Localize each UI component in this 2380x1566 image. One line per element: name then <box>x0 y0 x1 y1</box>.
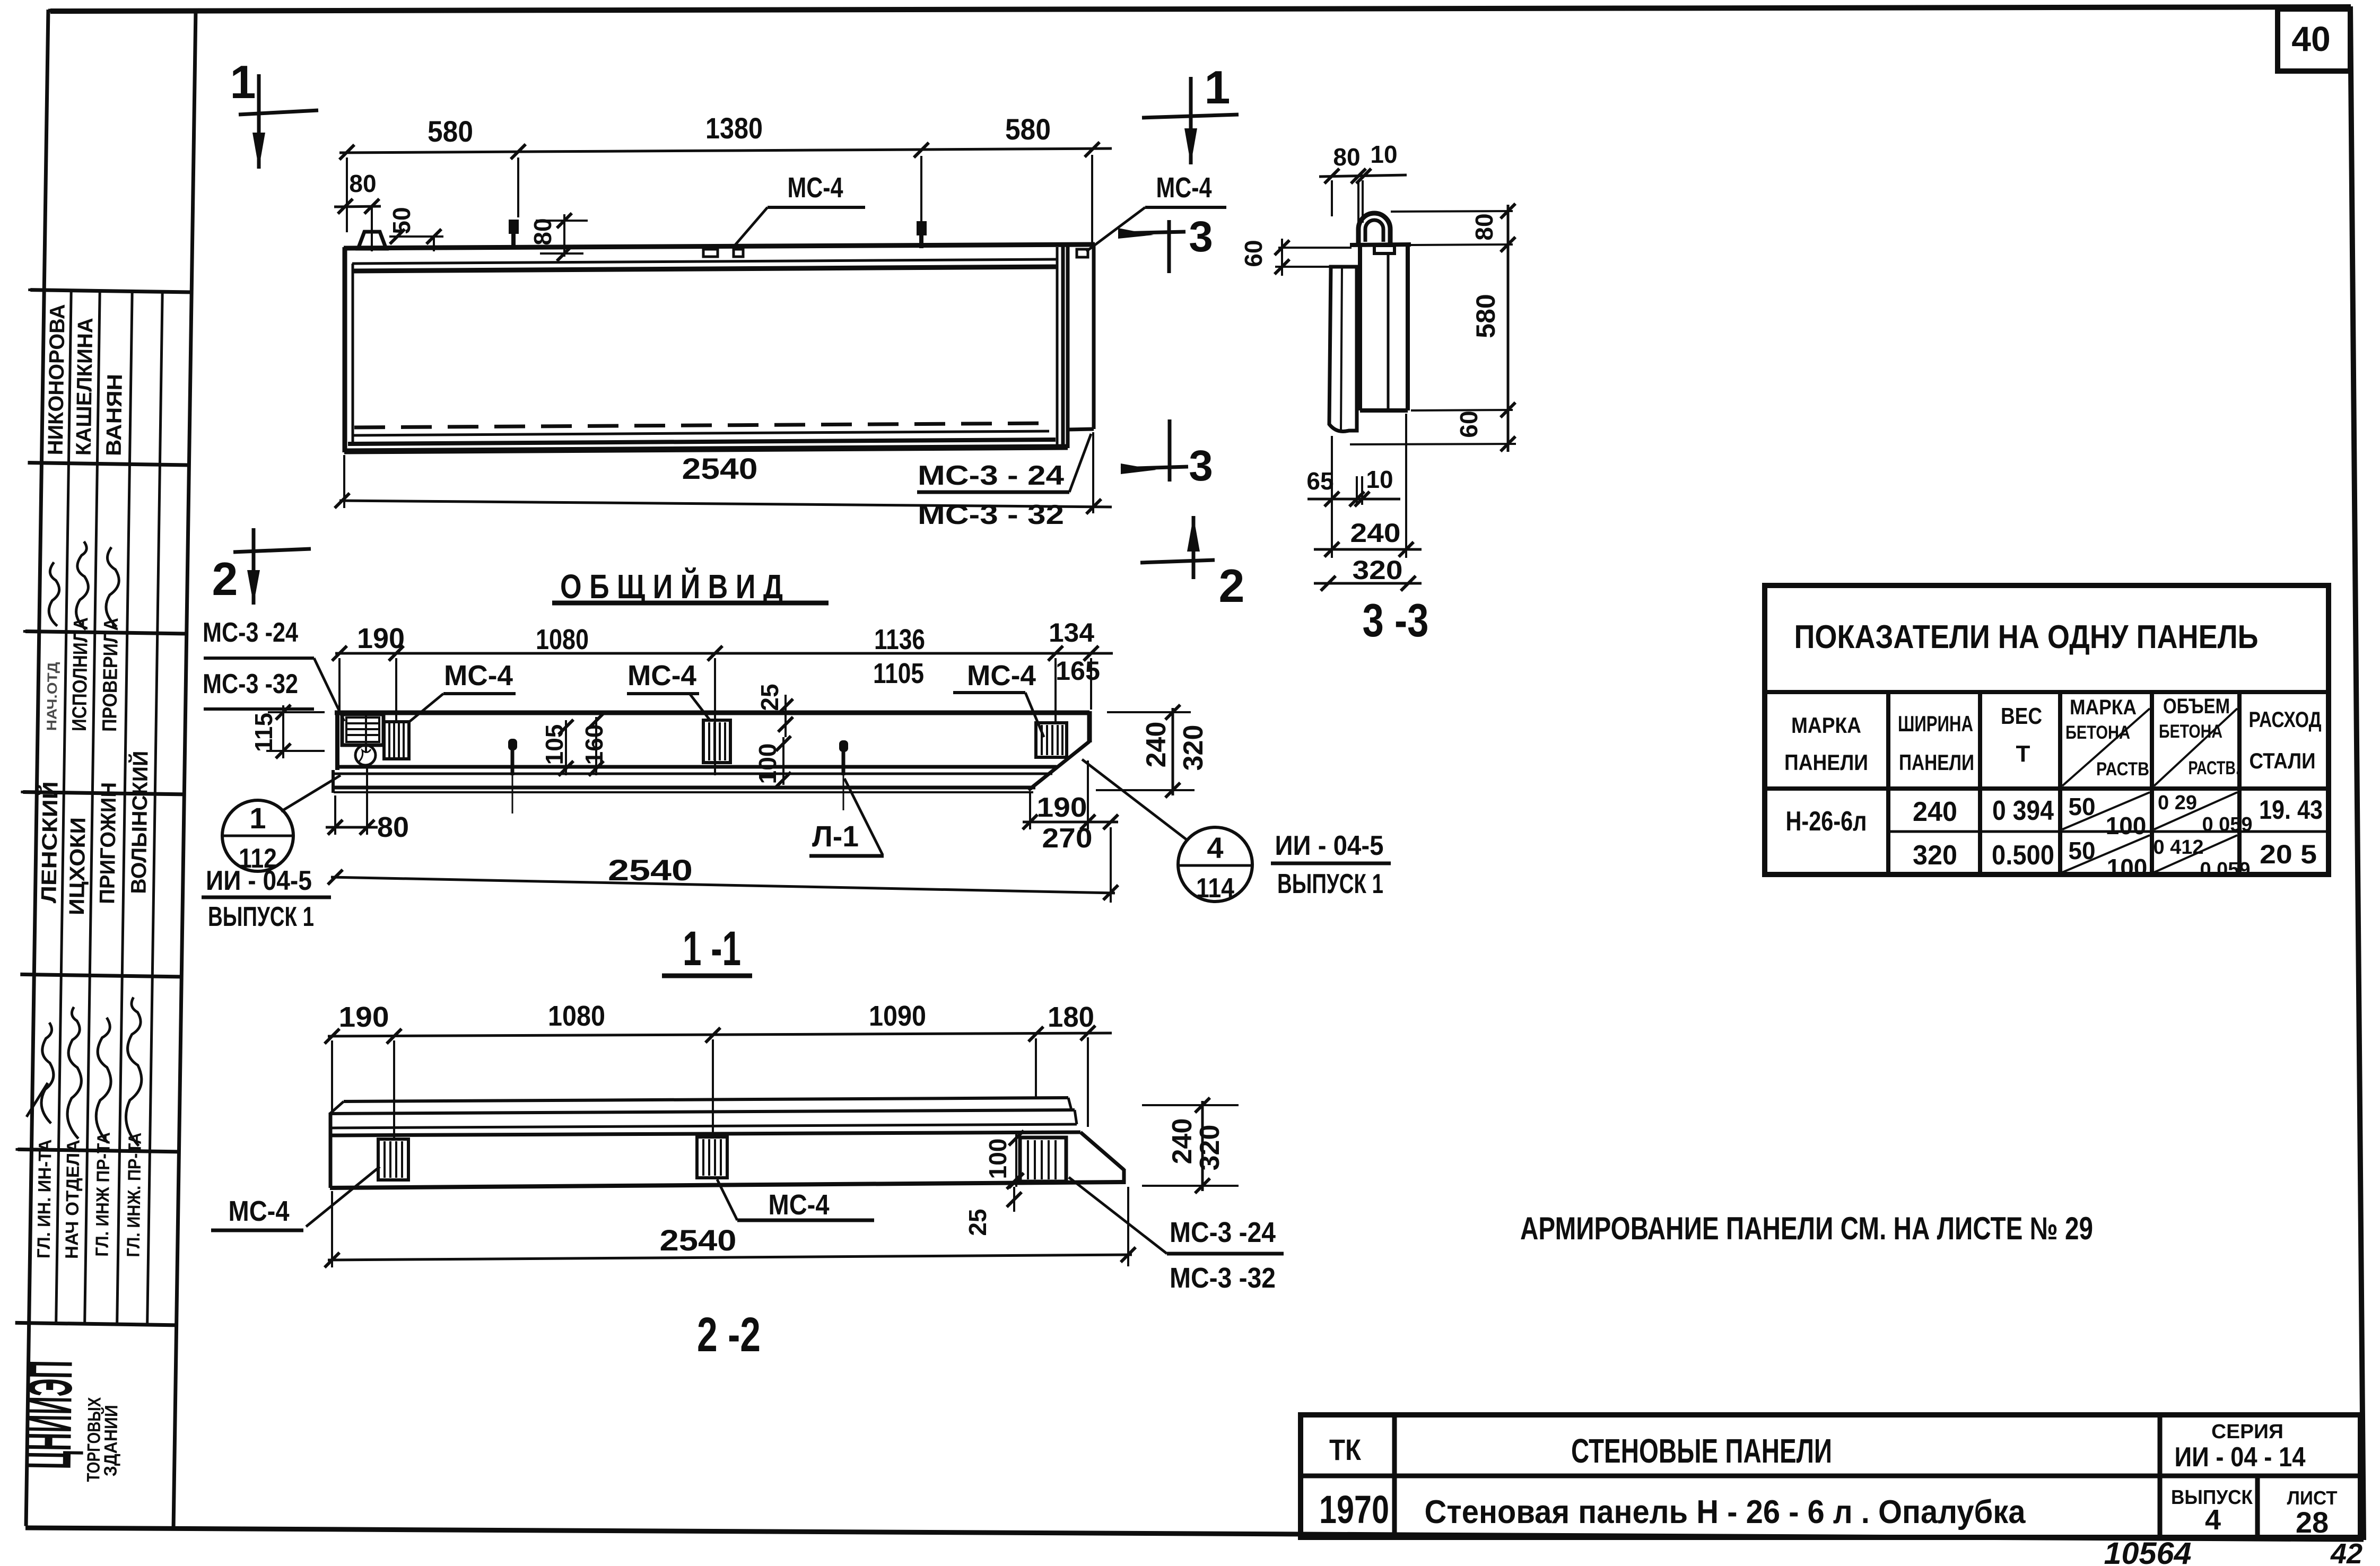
s11 bar bottom line <box>336 765 1057 769</box>
s33 dim60 ticks <box>1275 240 1289 274</box>
s22 dim 100 ticks <box>1009 1131 1024 1188</box>
s11 left edge <box>335 711 339 770</box>
s33 right dim vline <box>1507 205 1510 452</box>
s11 dim 115 tickline bot <box>266 750 325 752</box>
ext line 580 left <box>346 158 348 232</box>
svg-text:190: 190 <box>1037 792 1087 823</box>
svg-text:Л-1: Л-1 <box>812 819 859 853</box>
s11 pin2 stem <box>842 750 845 775</box>
svg-text:ВОЛЫНСКИЙ: ВОЛЫНСКИЙ <box>126 750 153 894</box>
s11 ext 80 a <box>334 795 336 835</box>
s11 dim 240 tickline top <box>1107 711 1191 713</box>
s22 tickline top <box>1142 1104 1239 1106</box>
svg-text:Т: Т <box>2016 741 2030 767</box>
pin 2 stem <box>919 235 923 248</box>
s22 top dim ticks <box>325 1026 1095 1044</box>
panel top edge <box>344 244 1095 248</box>
svg-text:2540: 2540 <box>608 853 693 887</box>
s33 left slab inner line <box>1341 267 1342 432</box>
s33 loop top ext <box>1391 211 1513 212</box>
svg-text:240: 240 <box>1350 518 1401 548</box>
svg-text:МС-3 - 32: МС-3 - 32 <box>918 500 1064 530</box>
s11 leader MC-3 <box>314 658 344 721</box>
panel right inner vertical 1 <box>1056 247 1059 446</box>
svg-text:20 5: 20 5 <box>2260 839 2317 869</box>
pin1 height dim line <box>563 214 565 257</box>
s11 dim 80 ticks <box>328 820 374 835</box>
s11 underline MC-3-32 <box>204 707 314 711</box>
s11 dim 240 ticks <box>1165 705 1180 798</box>
s11 dim 80 line <box>326 826 378 829</box>
ext line 580 mid <box>517 158 519 217</box>
svg-text:НАЧ ОТДЕЛА: НАЧ ОТДЕЛА <box>62 1140 83 1259</box>
s33 ext top a <box>1331 180 1333 216</box>
s22 box3 hatch <box>1028 1140 1056 1179</box>
s33 bottom ext c <box>1331 436 1333 558</box>
s22 left edge <box>329 1113 333 1188</box>
stamp left edge <box>26 10 48 1526</box>
section mark 1 top right bar <box>1142 115 1239 118</box>
s22 dim 25 line <box>1013 1187 1015 1212</box>
TABLE <box>1520 585 2329 1246</box>
s22 ext a <box>331 1040 333 1112</box>
svg-text:1080: 1080 <box>548 1000 605 1032</box>
data r1c5 diag <box>2154 792 2237 829</box>
s11 underline MC-4 b <box>627 692 699 695</box>
svg-text:1: 1 <box>1205 61 1231 113</box>
table col5 <box>2237 692 2242 874</box>
svg-text:3 -3: 3 -3 <box>1363 594 1429 646</box>
s11 box2 hatch <box>709 722 725 760</box>
svg-text:АРМИРОВАНИЕ ПАНЕЛИ СМ. НА Л: АРМИРОВАНИЕ ПАНЕЛИ СМ. НА ЛИСТЕ № 29 <box>1520 1211 2093 1246</box>
s22 underline MC-4 mid <box>737 1219 874 1222</box>
title 1-1 underline <box>662 974 752 978</box>
ext 80 trapezoid <box>371 206 373 232</box>
svg-text:180: 180 <box>1048 1001 1094 1033</box>
svg-text:80: 80 <box>1333 143 1360 171</box>
svg-text:80: 80 <box>377 811 409 843</box>
s11 ledge left edge <box>332 770 335 793</box>
s33 bottom ext e <box>1356 476 1358 505</box>
svg-text:0 412: 0 412 <box>2153 836 2203 859</box>
s11 leader MC-4 a <box>407 694 443 723</box>
svg-text:ГЛ. ИНЖ ПР-ТА: ГЛ. ИНЖ ПР-ТА <box>92 1132 114 1257</box>
svg-text:ПАНЕЛИ: ПАНЕЛИ <box>1784 750 1868 775</box>
svg-text:МС-3 -24: МС-3 -24 <box>1170 1217 1276 1248</box>
svg-text:19. 43: 19. 43 <box>2259 795 2323 825</box>
section mark 1 top left line <box>257 74 261 169</box>
svg-text:240: 240 <box>1141 722 1172 768</box>
flange bottom <box>1068 429 1094 430</box>
s11 bevel <box>1028 741 1089 790</box>
svg-text:25: 25 <box>756 684 783 711</box>
svg-text:100: 100 <box>984 1139 1012 1179</box>
lifting trapezoid <box>358 232 386 249</box>
balloon 1 leader <box>281 775 341 811</box>
svg-text:80: 80 <box>1470 213 1498 240</box>
svg-text:НАЧ.ОТД: НАЧ.ОТД <box>43 662 60 731</box>
svg-text:4: 4 <box>2205 1504 2221 1536</box>
panel right inner vertical 2 <box>1061 247 1065 447</box>
s11 box3 <box>1036 723 1067 757</box>
underline MC-4 left <box>768 206 865 209</box>
svg-text:2: 2 <box>1219 559 1245 612</box>
leader MC-4 right <box>1086 207 1145 251</box>
s22 dim 25 ticks <box>1007 1174 1022 1207</box>
svg-text:Н-26-6л: Н-26-6л <box>1786 806 1867 837</box>
s22 ext e <box>1087 1037 1089 1127</box>
svg-text:4: 4 <box>1207 831 1223 864</box>
svg-text:Стеновая панель Н - 26 - 6 л: Стеновая панель Н - 26 - 6 л . Опалубка <box>1425 1494 2026 1530</box>
s11 pin2 head <box>839 740 848 752</box>
s11 underline P-1 <box>809 854 884 858</box>
s11 circle tail <box>359 749 371 762</box>
s22 strip line2 <box>330 1110 1075 1114</box>
section mark 2 bottom right arrow <box>1187 516 1200 552</box>
title underline <box>552 601 829 606</box>
s33 right dim ticks <box>1501 204 1515 451</box>
svg-text:ОБЪЕМ: ОБЪЕМ <box>2163 695 2230 718</box>
s22 underline MC-3 <box>1167 1252 1284 1256</box>
stamp row line B <box>28 463 189 465</box>
s33 dim240 ticks <box>1324 542 1414 557</box>
svg-text:ВЫПУСК 1: ВЫПУСК 1 <box>208 902 314 932</box>
s11 dim 240 320 vline <box>1172 708 1174 795</box>
tick row D <box>21 791 38 793</box>
s11 leader MC-4 b <box>690 694 711 721</box>
svg-text:МС-3 - 24: МС-3 - 24 <box>918 460 1064 491</box>
svg-text:580: 580 <box>1471 294 1501 338</box>
svg-text:10: 10 <box>1370 141 1397 168</box>
stamp column 2 <box>85 291 100 1324</box>
section mark 2 bottom right line <box>1192 516 1196 579</box>
svg-text:ГЛ. ИН. ИН-ТА: ГЛ. ИН. ИН-ТА <box>33 1139 55 1259</box>
dim line 50 <box>389 235 443 238</box>
panel inner top line thick <box>352 267 1057 271</box>
table col3 <box>2058 692 2062 874</box>
svg-text:0 29: 0 29 <box>2158 792 2197 814</box>
svg-text:100: 100 <box>2106 812 2147 839</box>
pin 1 head <box>509 220 519 234</box>
s33 bottom ext b <box>1350 444 1516 444</box>
s33 bottom ext d <box>1405 414 1407 558</box>
table col1 <box>1886 692 1890 874</box>
svg-text:50: 50 <box>2068 837 2095 864</box>
ticks 80 left <box>338 199 379 214</box>
s11 pin2 axis <box>843 775 844 810</box>
s11 underline MC-3-24 <box>204 657 314 660</box>
svg-text:1970: 1970 <box>1319 1488 1389 1532</box>
svg-text:60: 60 <box>1455 410 1483 438</box>
svg-text:ВЫПУСК 1: ВЫПУСК 1 <box>1277 869 1383 899</box>
svg-text:580: 580 <box>428 115 473 148</box>
s11 box1 hatch <box>389 723 404 757</box>
center notch right <box>734 249 743 257</box>
dim line 80 left <box>334 206 381 207</box>
svg-text:320: 320 <box>1353 555 1403 585</box>
balloon 4 divider <box>1178 864 1252 867</box>
s11 circle <box>355 745 376 765</box>
leader MC-3 top view <box>1069 434 1091 492</box>
dim line 580 1380 580 <box>339 148 1112 153</box>
svg-text:60: 60 <box>1240 240 1267 267</box>
svg-text:ИИ - 04 - 14: ИИ - 04 - 14 <box>2175 1442 2306 1473</box>
SEC33 <box>1240 141 1516 646</box>
ticks 50 <box>390 229 441 244</box>
signature row E col2 <box>67 1007 82 1139</box>
corner tick bottom-left <box>27 1083 48 1117</box>
svg-text:114: 114 <box>1196 873 1234 904</box>
table title sep <box>1765 690 2329 694</box>
svg-text:10564: 10564 <box>2104 1536 2192 1566</box>
s11 top dim line <box>335 652 1113 655</box>
right notch <box>1077 249 1088 257</box>
stamp row line C <box>25 632 187 634</box>
s11 ext 2057 <box>1090 658 1092 710</box>
s22 right step2 <box>1075 1110 1077 1124</box>
table col4 <box>2150 692 2154 874</box>
section mark 3 upper line <box>1118 232 1185 233</box>
s11 ledge bottom2 <box>334 791 1033 793</box>
balloon 4 leader <box>1082 759 1187 840</box>
s22 ext b <box>393 1040 395 1138</box>
s22 box1 <box>378 1139 408 1180</box>
dim line 2540 top view <box>339 501 1112 507</box>
STAMP <box>10 8 196 1528</box>
svg-text:1: 1 <box>230 56 256 108</box>
svg-text:50: 50 <box>2068 793 2095 820</box>
svg-text:3: 3 <box>1189 213 1213 261</box>
s33 top edge ext <box>1411 244 1513 245</box>
svg-text:1 -1: 1 -1 <box>683 922 741 976</box>
svg-text:ИЦХОКИ: ИЦХОКИ <box>65 817 90 916</box>
stamp top tick <box>48 9 80 13</box>
svg-text:0.500: 0.500 <box>1992 840 2054 871</box>
underline MC-4 right <box>1145 206 1226 209</box>
s22 box2 hatch <box>703 1139 721 1176</box>
s11 underline MC-4 a <box>443 692 516 695</box>
panel inner left edge <box>352 264 354 444</box>
svg-text:БЕТОНА: БЕТОНА <box>2159 721 2222 742</box>
s11 pin1 stem <box>511 749 515 775</box>
s22 underline MC-4 left <box>211 1229 303 1232</box>
s33 ext top c <box>1362 180 1364 223</box>
section mark 1 top right line <box>1189 77 1193 164</box>
svg-text:165: 165 <box>1056 656 1100 686</box>
s11 box1 <box>384 722 409 759</box>
svg-text:105: 105 <box>540 724 568 765</box>
svg-text:РАСТВ: РАСТВ <box>2096 759 2149 780</box>
section mark 1 top left arrow <box>252 133 265 169</box>
svg-text:ВАНЯН: ВАНЯН <box>102 374 127 457</box>
stamp right edge <box>173 11 196 1528</box>
s22 leader MC-4 left <box>306 1167 380 1227</box>
s33 top edge <box>1350 244 1411 245</box>
s33 dim60 tickline b <box>1275 266 1329 268</box>
svg-text:РАСХОД: РАСХОД <box>2249 707 2322 732</box>
stamp column 3 <box>117 291 133 1324</box>
s22 ext 2540 right <box>1127 1187 1129 1266</box>
section mark 2 bottom left line <box>252 528 256 605</box>
titleblock col seriya <box>2158 1415 2163 1537</box>
svg-text:1136: 1136 <box>874 624 925 655</box>
s22 strip line1 <box>344 1098 1068 1101</box>
svg-text:320: 320 <box>1913 840 1957 871</box>
svg-text:240: 240 <box>1167 1118 1198 1165</box>
signature row E col3 <box>96 1018 112 1143</box>
s11 underline MC-4 c <box>953 691 1025 694</box>
stamp row line G <box>15 1323 177 1325</box>
svg-text:МС-3 -32: МС-3 -32 <box>1170 1262 1276 1294</box>
s33 top dim line <box>1319 175 1407 177</box>
dim ticks top <box>339 142 1100 160</box>
s11 ext 640 <box>338 658 341 711</box>
table col2 <box>1978 692 1982 874</box>
svg-text:МС-4: МС-4 <box>769 1189 830 1221</box>
data r2c5 diag <box>2154 835 2237 872</box>
s11 dim 2540 ticks <box>328 870 1118 900</box>
svg-text:320: 320 <box>1178 725 1209 771</box>
section mark 3 upper arrow <box>1118 228 1154 239</box>
svg-text:40: 40 <box>2291 19 2330 58</box>
svg-text:1: 1 <box>249 801 266 835</box>
s11 ext 80 b <box>366 768 368 835</box>
s22 box1 hatch <box>385 1141 402 1178</box>
svg-text:КАШЕЛКИНА: КАШЕЛКИНА <box>72 318 98 456</box>
section mark 2 bottom left bar <box>233 549 311 552</box>
svg-text:МАРКА: МАРКА <box>2070 696 2137 719</box>
balloon 1 divider <box>222 835 293 837</box>
s22 strip line3 <box>330 1124 1077 1128</box>
svg-text:РАСТВ.: РАСТВ. <box>2189 758 2240 778</box>
svg-text:580: 580 <box>1005 112 1051 146</box>
balloon 4 ref underline <box>1271 862 1391 865</box>
signature row B col1 <box>49 562 60 626</box>
s11 dim 105 ticks <box>559 720 573 776</box>
svg-text:0 394: 0 394 <box>1992 795 2054 826</box>
right border <box>2350 7 2364 1540</box>
svg-text:ИСПОЛНИЛА: ИСПОЛНИЛА <box>68 617 92 732</box>
s33 dim60 left vline <box>1281 239 1283 276</box>
svg-text:2540: 2540 <box>682 452 758 485</box>
s11 leader MC-4 c <box>1025 693 1044 737</box>
table header sep <box>1765 786 2329 791</box>
leader MC-4 left <box>735 207 768 246</box>
s22 ext 2540 left <box>331 1191 333 1267</box>
s33 top dim ticks <box>1324 169 1371 183</box>
titleblock col list <box>2255 1476 2260 1537</box>
pin 2 head <box>917 221 927 235</box>
svg-text:БЕТОНА: БЕТОНА <box>2065 722 2130 743</box>
s33 dim65 ticks <box>1324 492 1370 506</box>
svg-text:100: 100 <box>2107 854 2148 881</box>
s22 strip line4 <box>330 1132 1080 1135</box>
s22 ext d <box>1035 1038 1037 1097</box>
balloon 1 ref underline <box>202 896 331 899</box>
s22 right step1 <box>1068 1098 1071 1110</box>
svg-text:80: 80 <box>349 170 376 197</box>
svg-text:МС-4: МС-4 <box>444 660 513 692</box>
titleblock row sep <box>1301 1474 2360 1478</box>
svg-text:НИКОНОРОВА: НИКОНОРОВА <box>44 304 69 456</box>
section mark 1 top left bar <box>239 110 318 115</box>
top border <box>50 7 2351 11</box>
svg-text:190: 190 <box>339 1001 389 1033</box>
s11 dim 105 line <box>565 720 567 775</box>
bottom border <box>25 1528 2364 1539</box>
ticks 2540 top view <box>335 493 1101 514</box>
s11 dim 100 line <box>782 737 784 785</box>
svg-text:СТЕНОВЫЕ ПАНЕЛИ: СТЕНОВЫЕ ПАНЕЛИ <box>1571 1432 1832 1470</box>
ext line 1380 right <box>920 156 922 233</box>
s22 dim 240 ticks <box>1195 1098 1210 1193</box>
s33 left slab <box>1329 267 1357 432</box>
s33 notch <box>1374 246 1394 253</box>
section mark 3 lower arrow <box>1121 463 1156 474</box>
s11 pin1 axis <box>512 775 513 813</box>
svg-text:10: 10 <box>1366 466 1393 493</box>
section mark 3 lower line <box>1121 467 1188 469</box>
svg-text:65: 65 <box>1306 467 1333 495</box>
s11 ext 1990 <box>1054 658 1057 722</box>
s22 dim 2540 line <box>328 1255 1132 1260</box>
signature row B col2 <box>76 541 89 629</box>
section mark 2 bottom left arrow <box>247 570 260 605</box>
s11 embed MC3 outer <box>342 714 383 745</box>
s11 ext 2540 right <box>1110 827 1112 903</box>
s11 dim 160 ticks <box>589 713 604 776</box>
svg-text:115: 115 <box>250 713 277 752</box>
ext 2540 left <box>343 455 345 508</box>
svg-text:1105: 1105 <box>873 658 924 689</box>
s33 loop outer <box>1358 213 1390 245</box>
s22 dim 240 320 vline <box>1201 1101 1204 1191</box>
svg-text:МАРКА: МАРКА <box>1791 713 1861 738</box>
data r1c4 diag <box>2062 792 2150 829</box>
ext line 580 far right <box>1091 155 1093 243</box>
s11 dim 25 line <box>784 695 787 737</box>
titleblock col TK <box>1392 1415 1397 1537</box>
svg-text:ИИ - 04-5: ИИ - 04-5 <box>1275 830 1384 861</box>
svg-text:42: 42 <box>2330 1538 2362 1566</box>
svg-text:СТАЛИ: СТАЛИ <box>2250 748 2316 773</box>
pin1 dim tick lines2 <box>540 252 583 255</box>
s11 leader P-1 <box>844 778 883 855</box>
panel inner bottom line thick <box>348 440 1056 444</box>
pin1 dim tick lines <box>536 220 588 222</box>
svg-text:О Б Щ И Й В И Д: О Б Щ И Й В И Д <box>560 567 783 606</box>
s11 top edge <box>335 711 1089 715</box>
stamp column 4 <box>147 292 163 1325</box>
s33 loop inner <box>1365 220 1383 242</box>
s11 dim 190 270 line <box>1023 821 1118 824</box>
svg-text:320: 320 <box>1195 1125 1225 1171</box>
svg-text:1080: 1080 <box>536 624 589 655</box>
svg-text:2 -2: 2 -2 <box>697 1308 761 1362</box>
s11 embed MC3 center line <box>365 716 367 753</box>
pin 1 stem <box>511 234 516 248</box>
tick row F <box>15 1148 32 1151</box>
s11 box2 <box>703 720 730 763</box>
flange left edge <box>1066 246 1070 448</box>
signature row B col3 <box>106 547 119 627</box>
svg-text:50: 50 <box>388 207 415 234</box>
s11 ledge bottom <box>333 786 1035 790</box>
table outer box <box>1765 585 2329 874</box>
s33 right slab right edge <box>1406 244 1410 410</box>
s33 dim60 tickline a <box>1278 247 1352 249</box>
svg-text:ЛЕНСКИЙ: ЛЕНСКИЙ <box>36 781 62 904</box>
